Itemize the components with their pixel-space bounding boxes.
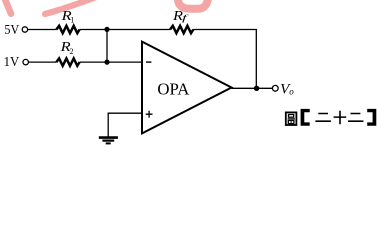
op-amp non-inverting pin marker (+) [146,111,153,118]
node A (junction of R1, R2 net, Rf) [104,27,109,32]
input terminal 5V [4,22,27,37]
node C (output junction with feedback) [254,86,259,91]
wire 1V terminal to R2 [29,61,57,63]
svg-text:2: 2 [70,47,74,56]
svg-text:OPA: OPA [157,80,189,99]
wire R2 to node B [80,61,107,63]
node B (junction on inverting input line) [104,60,109,65]
caption glyph 】 [367,109,376,126]
resistor R2 [56,58,79,65]
svg-text:5V: 5V [4,22,19,37]
input terminal 1V [4,54,29,69]
caption glyph 圖 [286,112,297,125]
wire R1 to node A [80,29,107,31]
wire Rf to node C (feedback, top run and right drop) [193,30,256,89]
wire node A to node B (vertical tie) [106,29,108,62]
resistor Rf [170,26,193,33]
caption glyph 【 [301,109,310,126]
svg-text:1: 1 [70,15,74,24]
caption glyph 二 (first) [315,113,331,122]
output terminal Vo [272,85,278,91]
wire 5V terminal to R1 [28,29,57,31]
label R1 [60,9,74,25]
op-amp U1 body (triangle) [142,42,232,134]
label Rf [172,9,190,24]
caption: figure number 圖【二十二】 [286,109,377,126]
op-amp inverting pin marker (-) [146,61,151,63]
wire node A to Rf [107,29,170,31]
ground [99,138,118,144]
wire op-amp output to terminal Vo [232,87,273,89]
wire node B to op-amp inverting input [107,61,142,63]
resistor R1 [56,26,79,33]
label R2 [59,40,73,56]
wire op-amp non-inverting input to ground [108,113,142,137]
label Vo [280,82,294,98]
svg-text:o: o [289,86,294,96]
caption glyph 十 [334,111,347,124]
caption glyph 二 (second) [348,113,363,122]
svg-text:1V: 1V [4,54,20,69]
